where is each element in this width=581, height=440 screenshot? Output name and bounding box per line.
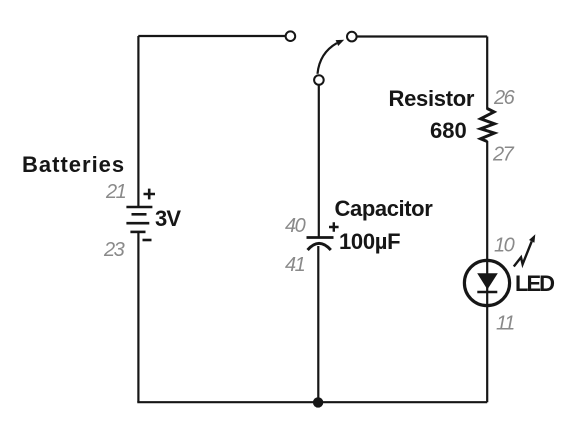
wire switch common vertical (to capacitor) [318,85,320,237]
svg-text:100µF: 100µF [339,229,400,254]
wire right vertical upper (to resistor) [486,37,488,110]
wire top-right horizontal [357,35,488,37]
svg-text:Capacitor: Capacitor [335,196,434,221]
junction dot (cap / bottom wire) [313,397,323,407]
capacitor C1 top plate [307,236,334,239]
LED D1 emission arrowhead [529,234,535,243]
svg-text:Batteries: Batteries [22,152,125,177]
switch S1 actuator arc [318,43,337,74]
LED D1 emission squiggle arrow [514,241,532,266]
capacitor C1 bottom curved plate [308,243,331,250]
switch S1 arrowhead [336,40,345,46]
switch S1 pin circle left [286,31,296,41]
svg-text:3V: 3V [155,206,181,231]
battery BT1 plate long [126,222,149,225]
svg-text:10: 10 [494,235,515,257]
battery BT1 plus sign [144,189,156,200]
svg-text:21: 21 [105,181,126,203]
svg-text:Resistor: Resistor [389,86,475,111]
wire top-left horizontal [138,35,285,37]
LED D1 triangle [477,273,498,289]
wire left vertical upper (battery top lead) [137,36,139,206]
switch S1 pin circle right [347,32,357,42]
battery BT1 plate short [132,213,147,216]
LED D1 cathode bar [477,291,497,294]
wire left vertical lower (battery bottom lead) [137,232,139,402]
svg-text:41: 41 [285,254,305,276]
svg-text:26: 26 [493,87,516,109]
svg-text:27: 27 [492,144,515,166]
resistor R1 zigzag [481,109,495,142]
wire right vertical lower (resistor to LED to bottom) [486,141,488,402]
capacitor C1 plus sign [329,222,339,231]
battery BT1 plate long top [126,206,152,209]
battery BT1 minus sign [143,239,152,242]
svg-text:680: 680 [430,118,467,143]
svg-text:23: 23 [103,239,125,261]
svg-text:40: 40 [285,215,306,237]
wire bottom horizontal [137,401,487,403]
switch S1 pin circle common [314,75,324,85]
battery BT1 plate short bottom [130,231,145,234]
svg-text:11: 11 [496,313,514,335]
svg-text:LED: LED [515,271,554,296]
wire capacitor bottom lead [317,246,319,402]
LED D1 circle [464,260,509,305]
